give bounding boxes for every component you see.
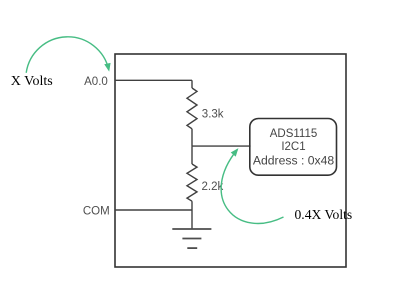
label 0.4X Volts (295, 207, 353, 222)
svg-text:A0.0: A0.0 (84, 76, 108, 88)
wire R2 bottom to COM junction (191, 201, 193, 210)
wire node to R2 top (191, 146, 193, 164)
terminal label COM (83, 205, 110, 217)
annotation arrow X Volts to A0.0 (26, 37, 109, 73)
svg-text:I2C1: I2C1 (281, 141, 305, 153)
terminal label A0.0 (84, 76, 108, 88)
annotation arrow 0.4X Volts to ADS wire (221, 150, 283, 224)
svg-text:ADS1115: ADS1115 (270, 128, 318, 140)
svg-text:COM: COM (83, 205, 110, 217)
svg-text:0.4X Volts: 0.4X Volts (295, 207, 353, 222)
value label 2.2k (202, 181, 224, 193)
wire COM to junction (115, 209, 192, 211)
svg-text:3.3k: 3.3k (202, 109, 224, 121)
wire junction to ground (191, 210, 193, 229)
resistor R1 3.3k (187, 88, 197, 129)
ground (172, 229, 211, 248)
value label 3.3k (202, 109, 224, 121)
IC U1 ADS1115 (250, 119, 337, 176)
svg-text:X Volts: X Volts (11, 74, 53, 89)
wire R1 bottom to node (191, 129, 193, 146)
wire divider top vertical (191, 80, 193, 88)
wire node to ADS1115 (192, 145, 251, 147)
label X Volts (11, 74, 53, 89)
svg-text:2.2k: 2.2k (202, 181, 224, 193)
enclosure box (115, 54, 346, 267)
resistor R2 2.2k (187, 164, 197, 201)
svg-text:Address : 0x48: Address : 0x48 (253, 154, 335, 168)
wire A0.0 input to divider top (115, 79, 192, 81)
